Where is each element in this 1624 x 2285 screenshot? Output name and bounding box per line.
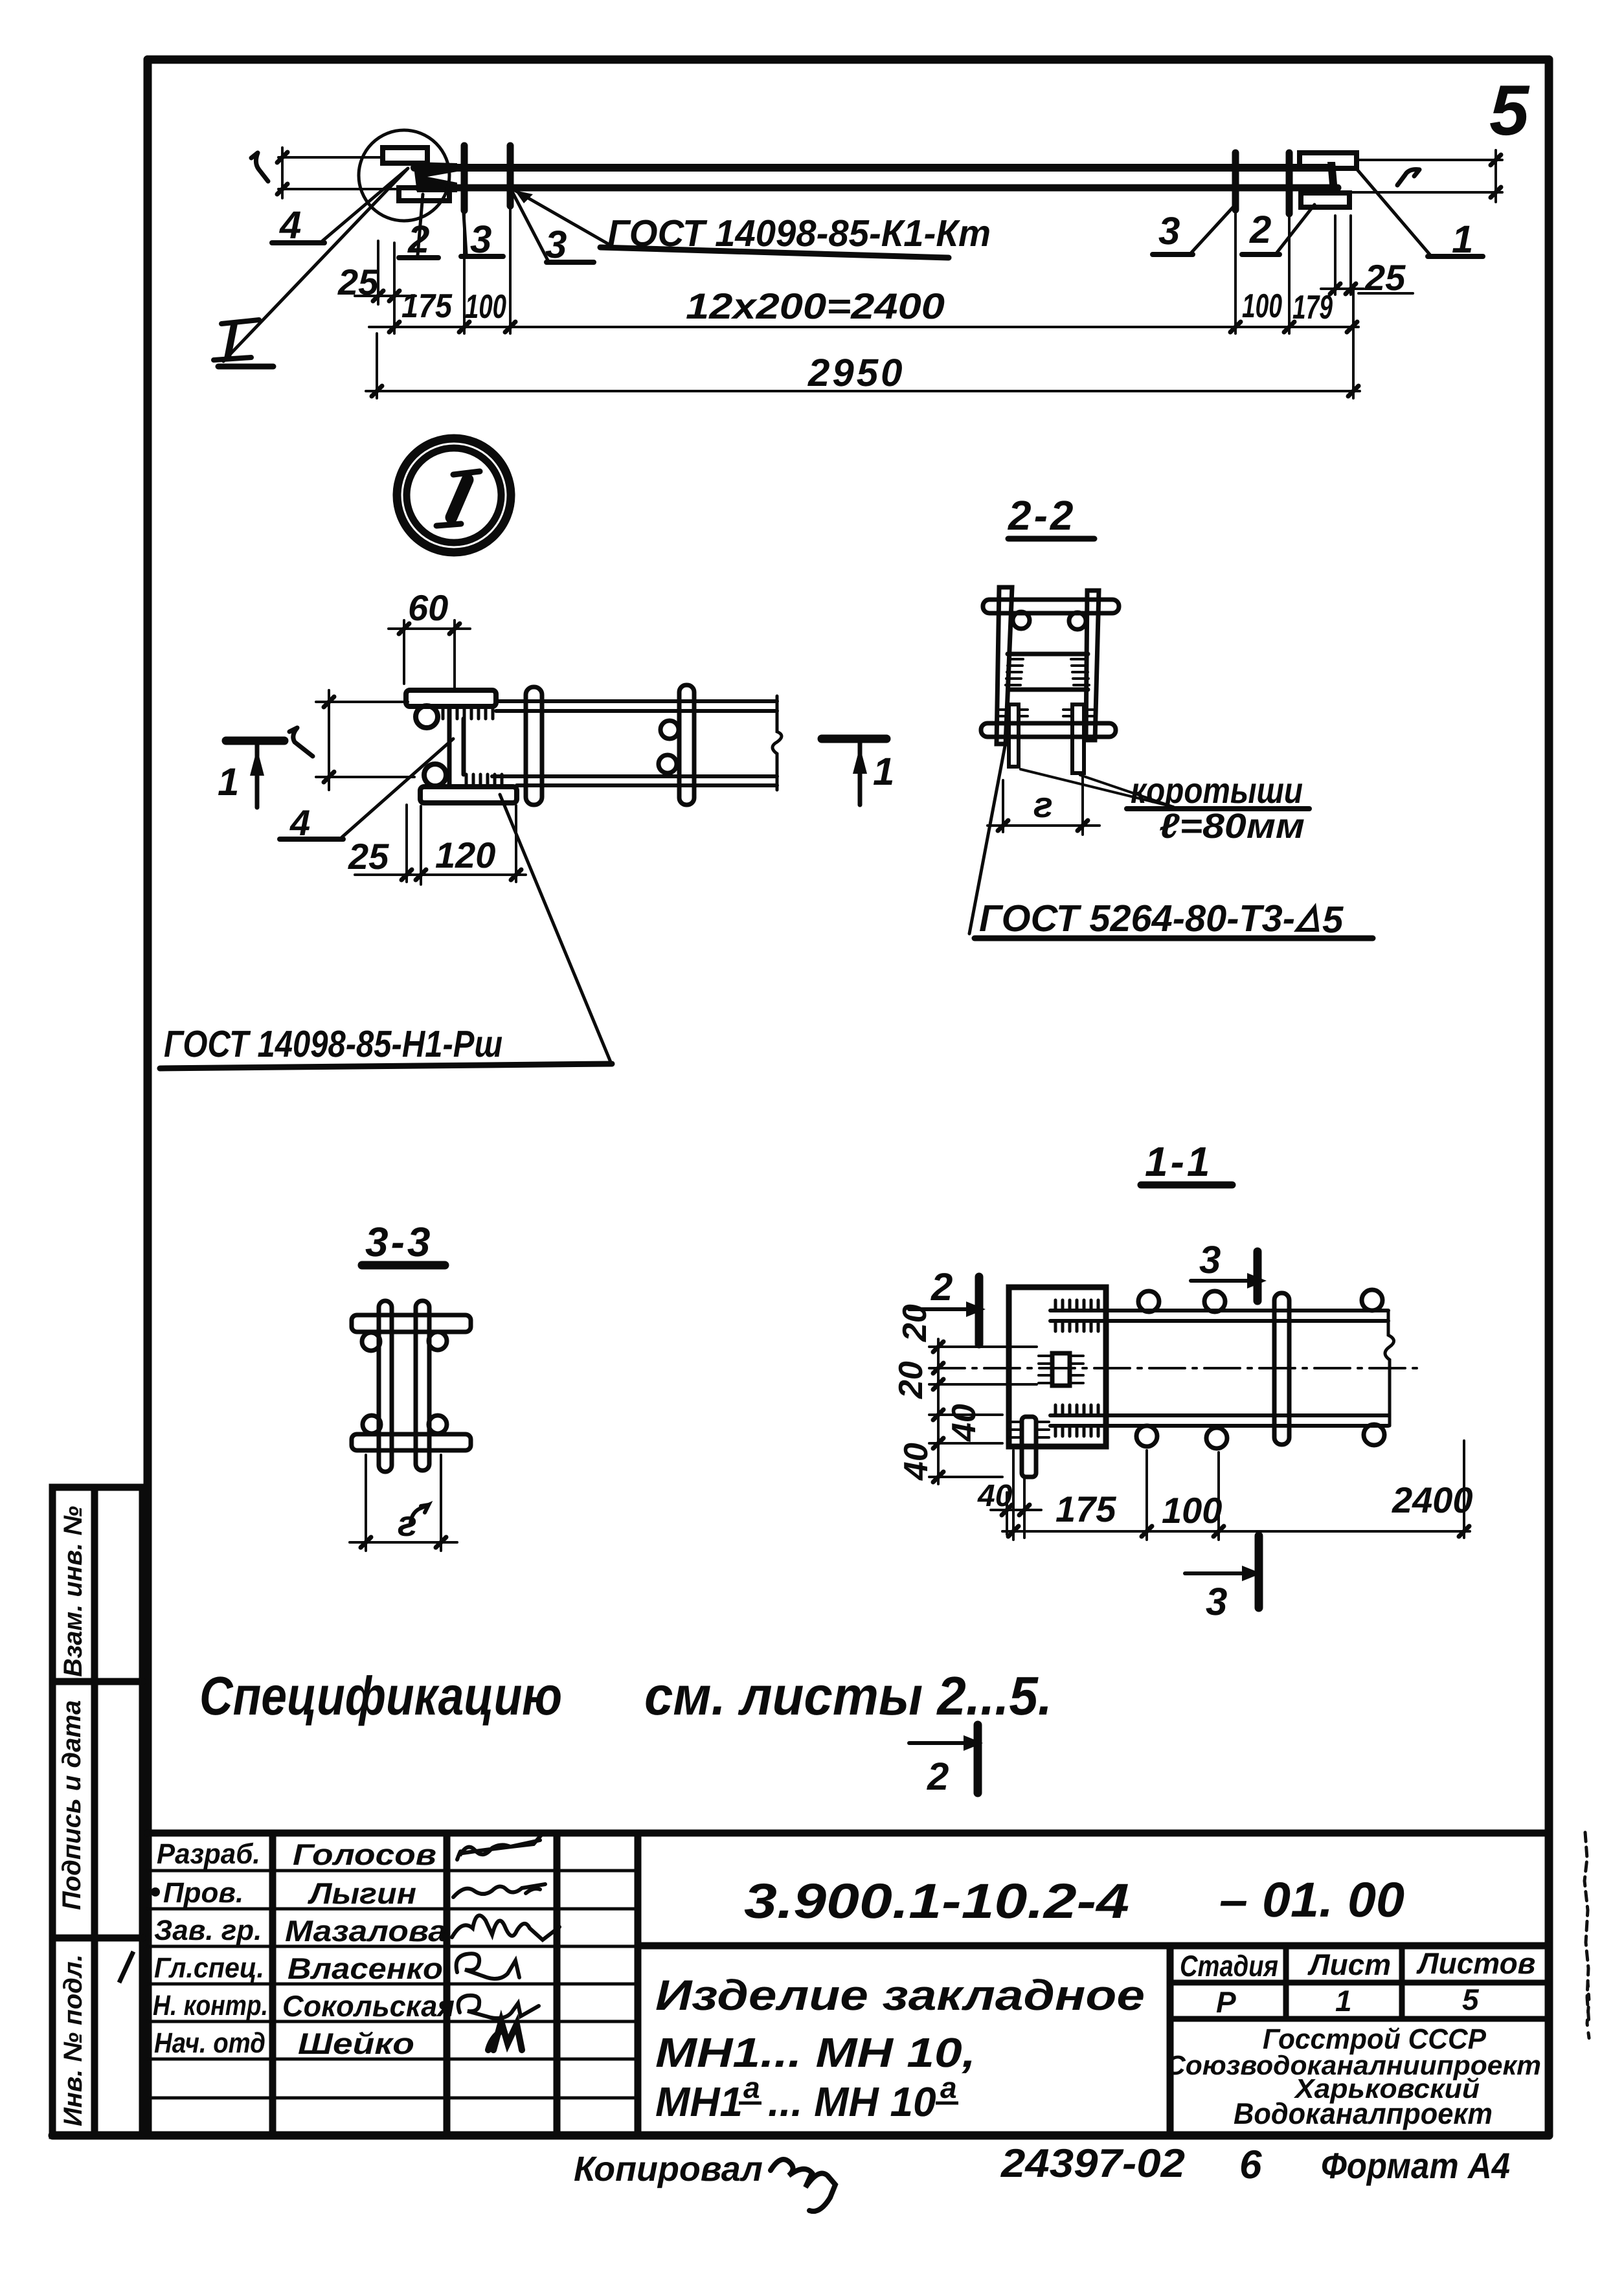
top strip bar 3-3 <box>352 1315 471 1332</box>
rebar section circle bottom <box>424 764 446 786</box>
svg-text:1: 1 <box>1335 1984 1352 2018</box>
svg-text:ГОСТ 14098-85-К1-Кт: ГОСТ 14098-85-К1-Кт <box>607 212 991 254</box>
svg-text:Подпись и дата: Подпись и дата <box>58 1700 86 1910</box>
vertical rod right 3-3 <box>416 1301 429 1470</box>
organization cell <box>1166 2023 1541 2130</box>
cross rod a <box>526 687 542 805</box>
svg-text:3-3: 3-3 <box>365 1219 433 1265</box>
vertical rod left 3-3 <box>379 1301 392 1472</box>
svg-text:Стадия: Стадия <box>1180 1949 1278 1983</box>
s-dim right extension lines <box>1351 150 1502 202</box>
kopiroval signature squiggle <box>771 2159 835 2211</box>
strip edges horizontal <box>1008 652 1088 657</box>
weld hatch left <box>1006 659 1023 685</box>
leader label 3 left1 <box>461 254 503 259</box>
right fork edge <box>1327 162 1338 192</box>
I serif strokes <box>221 320 259 324</box>
weld hatch lower korotyshi <box>1000 710 1093 716</box>
svg-text:2950: 2950 <box>807 351 905 394</box>
rebar circles 2-2 <box>1013 612 1030 629</box>
rebar bottom line <box>418 185 1338 192</box>
svg-text:а: а <box>940 2071 957 2104</box>
svg-text:12х200=2400: 12х200=2400 <box>686 286 945 326</box>
GOST K1 underline <box>600 247 949 258</box>
dim 25 left line <box>355 241 416 333</box>
section mark 1 left <box>226 737 284 745</box>
break mark right <box>773 696 782 790</box>
weld hatch rows on plate <box>1055 1300 1098 1436</box>
strip bottom edge lines <box>492 774 777 778</box>
GOST 5264 underline <box>975 936 1373 941</box>
mid korotysh plan <box>1052 1353 1070 1386</box>
title block outer <box>148 1833 1549 2135</box>
svg-text:Р: Р <box>1216 1985 1236 2019</box>
svg-text:Сокольская: Сокольская <box>282 1989 455 2023</box>
svg-text:Формат А4: Формат А4 <box>1321 2145 1510 2186</box>
svg-text:100: 100 <box>1242 287 1282 325</box>
bottom row outside frame <box>574 2141 1510 2189</box>
plate 4 top-left <box>383 148 427 163</box>
left fork edge <box>413 162 457 192</box>
svg-text:2: 2 <box>927 1755 949 1798</box>
svg-text:Лыгин: Лыгин <box>308 1876 416 1910</box>
slash mark in strip column <box>119 1952 133 1983</box>
left dim stack 1-1 <box>929 1339 1037 1484</box>
signatures column squiggles <box>452 1835 559 2050</box>
svg-text:МН1... МН 10,: МН1... МН 10, <box>655 2029 976 2076</box>
stadia sub-table <box>1170 1946 1549 2019</box>
svg-text:20: 20 <box>892 1361 930 1399</box>
section mark 2 bottom <box>909 1741 964 1745</box>
weld triangle symbol <box>1298 908 1317 930</box>
s-dim left extension lines <box>278 148 400 198</box>
leader label I <box>223 169 407 361</box>
svg-text:ℓ=80мм: ℓ=80мм <box>1159 807 1305 846</box>
title block row lines <box>148 1871 638 2098</box>
leader 4 detail <box>280 837 343 842</box>
dim g 3-3 <box>350 1455 457 1551</box>
svg-text:ГОСТ 5264-80-Т3-: ГОСТ 5264-80-Т3- <box>979 897 1295 940</box>
svg-text:4: 4 <box>279 203 301 247</box>
leader GOST K1-Kt with arrow <box>515 190 607 243</box>
break mark 1-1 <box>1385 1311 1394 1426</box>
svg-text:20: 20 <box>896 1304 934 1342</box>
s-dim right bent arrow <box>1397 170 1419 185</box>
strip bar top (elem 1 edge) <box>414 164 1331 172</box>
svg-text:Листов: Листов <box>1416 1946 1535 1980</box>
bottom rod korotysh <box>981 723 1116 737</box>
svg-text:г: г <box>1033 784 1053 825</box>
lower korotysh left <box>1009 704 1019 767</box>
dim 2950 line <box>366 285 1360 398</box>
svg-text:1: 1 <box>218 760 239 804</box>
leader label 3 left2 <box>547 260 594 265</box>
subject cell <box>655 1971 1145 2125</box>
svg-text:1-1: 1-1 <box>1145 1138 1213 1185</box>
svg-text:Спецификацию: Спецификацию <box>199 1665 562 1726</box>
svg-text:24397-02: 24397-02 <box>1000 2141 1185 2186</box>
svg-text:100: 100 <box>465 288 506 326</box>
svg-text:120: 120 <box>435 835 495 875</box>
section mark 3 top <box>1191 1279 1247 1283</box>
title block role labels <box>153 1838 268 2059</box>
svg-text:г: г <box>398 1503 417 1544</box>
svg-text:коротыши: коротыши <box>1131 770 1303 811</box>
svg-text:179: 179 <box>1292 289 1333 326</box>
rebar circles plan bottom <box>1136 1426 1157 1446</box>
section mark 3 bottom <box>1185 1571 1242 1575</box>
anchor plate plan <box>1009 1287 1106 1446</box>
bottom dim line 175/100/2400 <box>1002 1441 1470 1540</box>
svg-text:25: 25 <box>348 836 389 877</box>
anchor plate bottom <box>420 787 517 803</box>
svg-text:Голосов: Голосов <box>293 1838 436 1871</box>
leader to GOST N1-Rsh <box>500 794 612 1065</box>
leader label 2 right <box>1242 252 1280 257</box>
weld hatch above bottom plate <box>466 774 502 786</box>
svg-text:МН1: МН1 <box>655 2078 743 2125</box>
svg-text:– 01. 00: – 01. 00 <box>1219 1873 1404 1928</box>
lower korotysh plan <box>1022 1417 1036 1477</box>
leader GOST 5264 <box>969 743 1006 934</box>
strip bottom edges plan <box>1050 1413 1388 1417</box>
weld hatch under top plate <box>443 707 493 719</box>
dim 60 <box>389 620 470 690</box>
svg-text:100: 100 <box>1162 1490 1222 1531</box>
svg-text:5: 5 <box>1462 1983 1480 2016</box>
rebar circles plan top <box>1138 1291 1159 1312</box>
anchor plate 4 top <box>406 690 496 706</box>
section mark 1 right <box>822 735 886 743</box>
svg-text:5: 5 <box>1489 71 1530 150</box>
spec note <box>199 1665 1052 1726</box>
svg-text:Копировал: Копировал <box>574 2150 763 2189</box>
leader label 3 right <box>1153 252 1193 257</box>
plate bottom-left <box>399 188 449 201</box>
svg-text:175: 175 <box>401 287 453 325</box>
1-1 underline <box>1141 1182 1232 1189</box>
svg-text:25: 25 <box>337 262 379 302</box>
svg-text:Власенко: Власенко <box>288 1952 443 1985</box>
svg-text:Лист: Лист <box>1307 1948 1391 1981</box>
svg-text:Пров.: Пров. <box>163 1877 243 1909</box>
korotyshi underline <box>1127 806 1309 811</box>
svg-text:ГОСТ 14098-85-Н1-Рш: ГОСТ 14098-85-Н1-Рш <box>164 1023 502 1065</box>
svg-text:Гл.спец.: Гл.спец. <box>154 1952 264 1984</box>
svg-text:60: 60 <box>408 587 448 628</box>
cross rod plan <box>1274 1293 1289 1445</box>
bottom strip bar 3-3 <box>352 1434 471 1450</box>
dim g 2-2 <box>987 775 1100 835</box>
svg-text:а: а <box>743 2071 760 2104</box>
svg-text:40: 40 <box>977 1479 1013 1513</box>
korotysh tick 2 right b <box>1286 153 1293 214</box>
dim 25 / 120 bottom of detail I <box>355 805 526 884</box>
plate bottom-right <box>1301 193 1349 207</box>
svg-text:1: 1 <box>1452 218 1473 261</box>
strip fork verticals <box>447 706 452 785</box>
right plate strip <box>1086 591 1099 740</box>
svg-text:Изделие закладное: Изделие закладное <box>655 1971 1145 2019</box>
leader label 2 left <box>399 255 438 260</box>
strip top edge lines <box>496 699 777 703</box>
svg-text:3: 3 <box>1158 209 1180 253</box>
svg-text:25: 25 <box>1364 257 1406 298</box>
korotysh tick 3 right a <box>1232 153 1239 210</box>
3-3 underline <box>362 1261 445 1270</box>
svg-text:Инв. № подл.: Инв. № подл. <box>59 1954 87 2126</box>
svg-text:3: 3 <box>470 218 491 261</box>
left strip rotated labels <box>58 1506 87 2126</box>
svg-text:Взам. инв. №: Взам. инв. № <box>59 1506 87 1677</box>
svg-text:40: 40 <box>897 1443 935 1481</box>
stadia texts <box>1180 1946 1535 2019</box>
svg-text:Нач. отд: Нач. отд <box>154 2027 265 2059</box>
svg-text:Разраб.: Разраб. <box>157 1838 260 1870</box>
left height dim of detail I <box>316 690 414 790</box>
svg-text:Водоканалпроект: Водоканалпроект <box>1234 2097 1493 2130</box>
detail I circle on view <box>359 130 449 221</box>
dim 25 right <box>1321 216 1413 295</box>
dim line 175/100/2400 row <box>369 208 1359 333</box>
svg-text:Мазалова: Мазалова <box>285 1914 447 1948</box>
svg-text:Шейко: Шейко <box>298 2027 414 2060</box>
rebar section circle top <box>416 706 438 728</box>
s-dim left bent arrow <box>251 153 268 181</box>
svg-text:3: 3 <box>1206 1580 1227 1623</box>
lower korotysh right <box>1072 704 1084 773</box>
svg-text:175: 175 <box>1055 1489 1116 1529</box>
svg-text:... МН 10: ... МН 10 <box>768 2078 936 2125</box>
svg-text:Н. контр.: Н. контр. <box>153 1990 268 2021</box>
dim 40 small horizontal <box>991 1479 1041 1538</box>
title block names <box>282 1838 455 2060</box>
section mark 2 top <box>909 1307 966 1311</box>
svg-text:см. листы 2...5.: см. листы 2...5. <box>644 1665 1052 1726</box>
plate 1 top-right <box>1300 153 1357 168</box>
2-2 underline <box>1008 536 1094 542</box>
svg-text:1: 1 <box>873 750 894 793</box>
svg-text:2: 2 <box>407 218 429 261</box>
weld hatch right <box>1071 659 1089 685</box>
GOST N1-Rsh underline <box>160 1064 612 1068</box>
small bent mark 3-3 g <box>411 1505 429 1523</box>
svg-text:2-2: 2-2 <box>1008 492 1076 539</box>
scanner edge streak right <box>1585 1832 1590 2043</box>
doc number <box>744 1873 1404 1929</box>
rebar circles 3-3 <box>362 1333 380 1351</box>
svg-text:40: 40 <box>945 1404 983 1442</box>
axis line 1-1 <box>929 1367 1418 1369</box>
leader label 1 right <box>1428 254 1483 259</box>
leader label 4 <box>272 168 408 243</box>
cross rod b <box>679 685 694 805</box>
svg-text:4: 4 <box>289 802 310 843</box>
svg-text:3.900.1-10.2-4: 3.900.1-10.2-4 <box>744 1874 1129 1929</box>
svg-text:2: 2 <box>930 1265 953 1309</box>
svg-text:2400: 2400 <box>1392 1480 1473 1520</box>
left plate strip <box>997 587 1012 744</box>
left attribute strip box <box>52 1487 142 2135</box>
top rod korotysh <box>983 600 1119 613</box>
s-dim right ticks <box>1491 155 1501 165</box>
svg-text:2: 2 <box>1249 208 1271 251</box>
rebar circles at rod b <box>660 721 679 739</box>
svg-text:3: 3 <box>1199 1238 1221 1281</box>
s-dim left ticks <box>277 152 288 163</box>
korotyshi leaders <box>1021 769 1173 807</box>
svg-text:5: 5 <box>1322 899 1344 941</box>
korotysh tick 3 left b <box>507 146 514 206</box>
bent arrow mark detail I <box>289 728 313 756</box>
korotysh tick 3 left a <box>461 146 468 210</box>
svg-text:6: 6 <box>1239 2143 1262 2187</box>
strip top edges plan <box>1050 1309 1388 1312</box>
svg-text:Зав. гр.: Зав. гр. <box>154 1915 262 1946</box>
svg-text:3: 3 <box>545 223 567 266</box>
detail I circled marker <box>397 438 511 552</box>
